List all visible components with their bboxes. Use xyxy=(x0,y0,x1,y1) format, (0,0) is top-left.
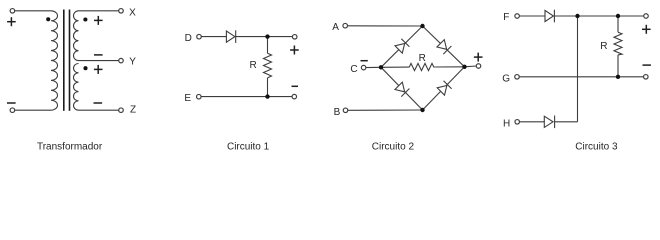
svg-text:R: R xyxy=(600,41,607,52)
svg-text:R: R xyxy=(249,60,256,71)
svg-text:G: G xyxy=(502,74,510,85)
svg-text:Circuito 2: Circuito 2 xyxy=(372,141,415,152)
svg-text:H: H xyxy=(503,119,510,130)
svg-text:X: X xyxy=(129,7,136,18)
svg-text:F: F xyxy=(503,12,509,23)
svg-text:R: R xyxy=(419,53,426,64)
svg-text:Circuito 3: Circuito 3 xyxy=(575,141,618,152)
svg-text:A: A xyxy=(332,22,339,33)
svg-text:Transformador: Transformador xyxy=(37,141,103,152)
svg-text:Y: Y xyxy=(129,56,136,67)
svg-text:C: C xyxy=(350,64,357,75)
svg-text:Circuito 1: Circuito 1 xyxy=(227,141,270,152)
svg-text:Z: Z xyxy=(130,104,136,115)
svg-text:B: B xyxy=(334,107,341,118)
svg-text:E: E xyxy=(184,93,191,104)
svg-text:D: D xyxy=(185,33,192,44)
